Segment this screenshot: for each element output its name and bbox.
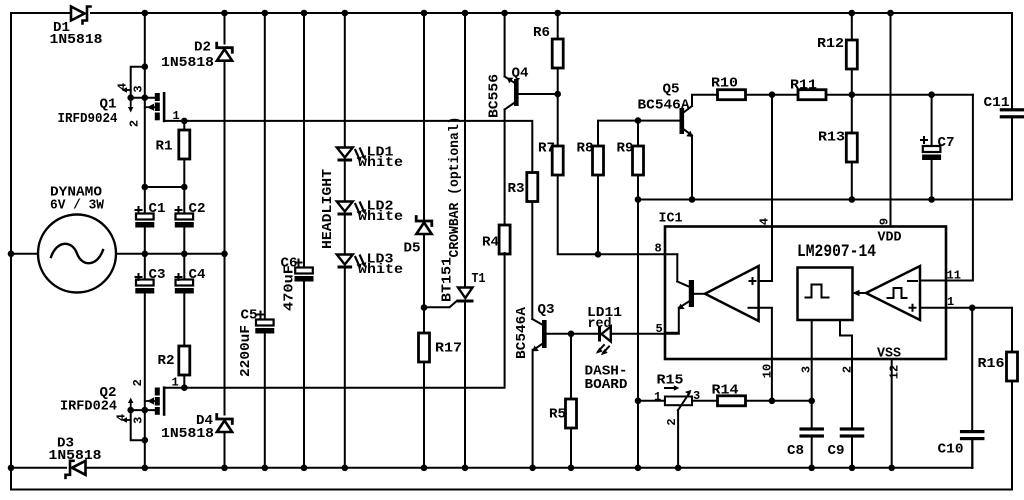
svg-text:R9: R9 — [617, 141, 634, 157]
resistor R4 — [482, 225, 510, 254]
svg-text:IC1: IC1 — [659, 211, 683, 227]
svg-text:1N5818: 1N5818 — [50, 32, 103, 48]
capacitor C2 — [175, 187, 206, 254]
svg-text:C1: C1 — [149, 201, 166, 217]
svg-text:12: 12 — [888, 365, 902, 379]
wire R15 to R14 — [692, 400, 718, 402]
wire LED rail — [344, 13, 346, 147]
svg-text:C10: C10 — [938, 442, 964, 458]
transistor internal NPN — [677, 254, 694, 309]
wire pin4 riser — [759, 95, 772, 281]
pin 11 — [920, 280, 946, 282]
wire R11 to C7/pin11 corner — [826, 94, 973, 96]
wire pin3 — [811, 320, 813, 401]
svg-text:8: 8 — [655, 242, 662, 256]
svg-text:HEADLIGHT: HEADLIGHT — [320, 168, 336, 249]
wire dynamo right lead — [116, 253, 225, 255]
diode D1 — [50, 7, 103, 49]
svg-text:IRFD9024: IRFD9024 — [58, 111, 118, 127]
wire bottom return — [11, 489, 1012, 491]
wire dynamo left lead — [11, 253, 38, 255]
wire Q1 drain to R3 — [184, 121, 532, 173]
svg-text:9: 9 — [878, 218, 892, 225]
wire comparator A output — [694, 293, 705, 295]
svg-text:R12: R12 — [817, 36, 844, 52]
wire left rail — [10, 13, 12, 490]
wire internal emitter to pin5 — [665, 308, 679, 333]
wire Q3 base to LD11 — [547, 333, 599, 335]
svg-text:BC546A: BC546A — [514, 307, 530, 359]
svg-text:D2: D2 — [194, 40, 211, 56]
svg-text:2: 2 — [128, 120, 142, 127]
svg-text:C8: C8 — [787, 443, 804, 459]
svg-text:2: 2 — [131, 379, 145, 386]
svg-text:1N5818: 1N5818 — [161, 426, 214, 442]
wire Q2 drain to R4 node — [184, 253, 504, 388]
svg-text:R4: R4 — [482, 235, 499, 251]
wire R10-R11 node — [746, 94, 799, 96]
svg-text:1: 1 — [654, 390, 661, 404]
svg-text:VSS: VSS — [877, 346, 901, 362]
thyristor T1 BT151 — [424, 257, 486, 307]
resistor R1 — [156, 121, 190, 187]
wire R15 wiper down — [677, 410, 679, 467]
svg-text:R1: R1 — [156, 139, 173, 155]
wire rail x144 top — [144, 13, 146, 187]
wire R15 feed — [638, 400, 665, 402]
svg-text:BC546A: BC546A — [638, 97, 690, 113]
svg-text:4: 4 — [116, 83, 130, 90]
svg-text:6V / 3W: 6V / 3W — [50, 198, 104, 214]
svg-text:C4: C4 — [189, 267, 206, 283]
capacitor C7 — [921, 91, 955, 199]
svg-text:R14: R14 — [712, 383, 740, 399]
wire Q5 emitter — [691, 136, 693, 200]
wire Q4 base — [519, 93, 558, 95]
svg-text:1N5818: 1N5818 — [161, 55, 214, 71]
capacitor C3 — [135, 254, 165, 410]
svg-text:2: 2 — [665, 418, 679, 425]
svg-text:R8: R8 — [577, 141, 594, 157]
transistor Q5 BC546A — [638, 82, 694, 138]
svg-text:11: 11 — [947, 269, 961, 283]
svg-text:C11: C11 — [984, 95, 1010, 111]
wire D2 anode down / D4 cathode up — [224, 61, 226, 415]
svg-text:R2: R2 — [158, 353, 175, 369]
wire AC rail — [224, 13, 226, 44]
wire Q5 collector to R10 — [692, 95, 718, 106]
wire T1 anode rail — [464, 13, 466, 287]
svg-text:IRFD024: IRFD024 — [60, 399, 117, 415]
svg-text:3: 3 — [132, 85, 146, 92]
wire comparator B output arrow — [855, 292, 866, 294]
svg-text:white: white — [358, 262, 403, 278]
svg-text:2200uF: 2200uF — [238, 325, 254, 377]
capacitor C9 — [828, 427, 865, 467]
wire top supply bus — [11, 12, 69, 14]
wire pin10 drop — [771, 359, 773, 401]
resistor R12 — [817, 10, 857, 95]
transistor Q1 IRFD9024 — [58, 63, 180, 127]
transistor Q3 BC546A — [514, 302, 555, 359]
svg-text:R6: R6 — [533, 25, 550, 41]
wire R9 rail down — [637, 200, 639, 468]
pin 1 — [920, 307, 946, 309]
svg-text:R17: R17 — [435, 341, 462, 357]
potentiometer R15 — [654, 373, 700, 426]
wire pin12 ground — [891, 359, 893, 468]
dynamo G1 6V/3W — [38, 185, 116, 293]
svg-text:Q4: Q4 — [512, 66, 529, 82]
svg-text:T1: T1 — [472, 271, 486, 287]
svg-text:4: 4 — [758, 218, 772, 225]
wire Q3 emitter to ground — [532, 350, 534, 468]
capacitor C11 — [984, 13, 1024, 200]
svg-text:R11: R11 — [790, 78, 817, 94]
capacitor C6 470uF — [281, 10, 314, 471]
transistor Q2 IRFD024 — [60, 376, 179, 444]
wire VDD rail — [890, 13, 892, 227]
svg-text:470uF: 470uF — [282, 265, 298, 311]
capacitor C5 2200uF — [238, 10, 274, 471]
svg-text:white: white — [358, 209, 403, 225]
wire Q1 drain — [164, 120, 184, 122]
svg-text:white: white — [358, 155, 403, 171]
svg-text:C5: C5 — [241, 308, 258, 324]
wire R8/R9 to Q5 base — [598, 121, 680, 146]
op-amp comparator B — [866, 266, 920, 320]
IC IC1 LM2907-14 box — [665, 227, 946, 360]
resistor R13 — [818, 95, 857, 200]
svg-text:4: 4 — [115, 414, 129, 421]
svg-text:R16: R16 — [978, 356, 1005, 372]
diode D2 — [161, 40, 232, 72]
wire pin2 jog — [840, 320, 852, 427]
wire R14 to pin3 node — [746, 400, 812, 402]
svg-text:C3: C3 — [149, 267, 166, 283]
transistor Q4 BC556 — [487, 66, 529, 119]
svg-text:Q3: Q3 — [538, 302, 555, 318]
wire pin11 riser — [946, 95, 973, 281]
resistor R9 — [617, 121, 644, 200]
capacitor C8 — [787, 401, 824, 468]
capacitor C10 — [938, 308, 985, 468]
wire ground bus — [11, 467, 66, 469]
resistor R11 — [790, 78, 826, 100]
svg-text:R15: R15 — [657, 373, 684, 389]
diode D5 — [404, 217, 432, 257]
svg-text:CROWBAR (optional): CROWBAR (optional) — [447, 117, 463, 258]
LED LD1 white — [337, 145, 403, 172]
resistor R2 — [158, 346, 190, 388]
capacitor C4 — [175, 254, 206, 346]
svg-text:VDD: VDD — [878, 230, 902, 246]
svg-text:red: red — [588, 316, 612, 332]
resistor R14 — [712, 383, 746, 406]
op-amp comparator A — [705, 266, 759, 321]
wire D5 rail — [423, 13, 425, 219]
wire supply sense bus y200 — [638, 199, 1012, 201]
svg-text:R3: R3 — [508, 181, 525, 197]
diode D3 — [49, 436, 102, 478]
svg-text:BT151: BT151 — [440, 257, 456, 302]
svg-text:3: 3 — [132, 417, 146, 424]
svg-text:R7: R7 — [538, 141, 555, 157]
svg-text:C2: C2 — [189, 201, 206, 217]
svg-text:R5: R5 — [549, 407, 566, 423]
svg-text:LM2907-14: LM2907-14 — [797, 242, 876, 262]
wire pin10 riser — [759, 308, 772, 359]
charge pump block — [798, 268, 853, 321]
wire Q2 source rail bottom — [144, 410, 146, 468]
svg-text:D5: D5 — [404, 241, 421, 257]
svg-text:R10: R10 — [711, 76, 738, 92]
svg-text:Q5: Q5 — [663, 82, 680, 98]
wire LD11 to pin5 — [611, 333, 679, 335]
resistor R8 — [577, 141, 604, 255]
svg-text:R13: R13 — [818, 130, 845, 146]
wire pin1 to R16 — [946, 307, 1012, 309]
resistor R16 — [978, 308, 1018, 490]
LED LD2 white — [337, 199, 403, 226]
resistor R3 — [508, 173, 538, 202]
capacitor C1 — [135, 187, 165, 254]
svg-text:BC556: BC556 — [487, 74, 503, 118]
svg-text:BOARD: BOARD — [585, 377, 628, 393]
resistor R17 — [419, 333, 463, 468]
resistor R6 — [533, 10, 563, 94]
svg-text:C7: C7 — [938, 135, 955, 151]
wire R3 to Q3 collector — [531, 202, 533, 320]
svg-text:C9: C9 — [828, 443, 845, 459]
LED LD11 red — [587, 305, 622, 355]
LED LD3 white — [337, 252, 403, 279]
resistor R5 — [549, 334, 577, 468]
wire C1-C2 top link — [145, 186, 185, 188]
wire Q4 collector to R4 — [504, 110, 506, 226]
svg-text:1N5818: 1N5818 — [49, 448, 102, 464]
diode D4 — [161, 413, 232, 442]
wire Q2 drain — [164, 387, 184, 389]
resistor R10 — [711, 76, 746, 100]
wire R7 to pin8 — [558, 175, 678, 254]
resistor R7 — [538, 94, 563, 175]
wire Q4 emitter rail — [504, 13, 506, 77]
